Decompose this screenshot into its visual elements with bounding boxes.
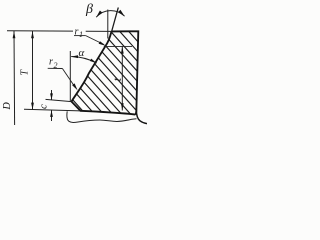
top face extension line (left part)	[7, 30, 73, 32]
svg-text:D: D	[2, 102, 13, 111]
c dimension lower tail and up arrowhead	[51, 110, 53, 121]
D top arrowhead	[13, 31, 16, 38]
T dimension line	[32, 31, 34, 110]
alpha vertical extension line	[69, 51, 71, 101]
r2 leader line and arrowhead	[62, 69, 75, 88]
part outline (thick profile)	[72, 31, 139, 114]
t dimension line	[121, 46, 123, 110]
alpha angle arc	[71, 57, 97, 64]
r1 leader line and arrowhead	[86, 36, 104, 45]
T top arrowhead	[31, 31, 34, 38]
svg-text:1: 1	[79, 30, 83, 39]
svg-text:α: α	[79, 47, 85, 59]
beta angle arc	[96, 11, 124, 18]
D dimension line	[13, 31, 16, 125]
beta vertical extension line	[107, 10, 109, 39]
wavy break line at bottom	[67, 111, 137, 122]
bottom-right corner break curve	[136, 110, 147, 124]
alpha arc right arrowhead	[90, 59, 97, 64]
svg-text:c: c	[38, 104, 50, 109]
t reference thin line inside hatch	[104, 45, 132, 47]
beta arc right arrowhead	[118, 10, 125, 16]
bottom face extension line	[24, 109, 81, 111]
t top arrowhead	[121, 47, 124, 54]
svg-text:r: r	[49, 57, 53, 68]
beta arc left arrowhead	[96, 11, 102, 18]
beta slant extension above face	[111, 8, 118, 34]
c dimension upper tail and down arrowhead	[51, 90, 53, 100]
t bottom arrowhead	[121, 103, 124, 110]
alpha arc left arrowhead	[71, 55, 78, 58]
top face extension line (right part, after r1 label)	[86, 30, 112, 32]
groove bottom extension line	[46, 99, 72, 101]
T bottom arrowhead	[31, 103, 34, 110]
svg-text:β: β	[85, 2, 93, 17]
hatching of section	[6, 25, 215, 117]
